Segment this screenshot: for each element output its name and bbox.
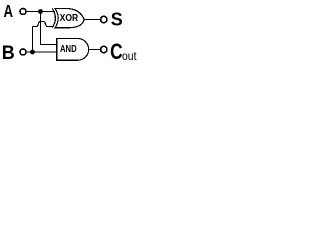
svg-text:S: S [111,10,123,31]
svg-text:A: A [4,1,14,21]
svg-text:XOR: XOR [60,12,79,24]
svg-text:B: B [2,42,15,64]
svg-text:C: C [110,39,123,64]
svg-text:out: out [122,49,137,63]
svg-text:AND: AND [60,43,77,55]
